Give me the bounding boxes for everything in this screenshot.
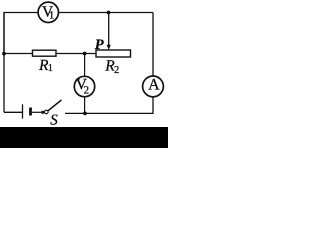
label R1 — [38, 57, 53, 74]
wire: bottom-left corner to battery — [4, 111, 22, 113]
svg-text:1: 1 — [49, 9, 55, 21]
node: junction of wiper branch on top wire — [107, 11, 111, 15]
battery cell: long positive plate — [22, 104, 24, 118]
wire: left vertical — [3, 13, 5, 113]
wire: middle junction down to V2 — [84, 54, 86, 77]
wire: V2 down to bottom wire — [84, 97, 86, 114]
wire: battery to switch — [32, 111, 41, 113]
switch S contact dot — [41, 111, 44, 114]
rheostat R2 body — [96, 50, 131, 57]
node: bottom junction of V2 branch — [83, 112, 87, 116]
wire: right vertical down to ammeter — [152, 13, 154, 77]
svg-text:2: 2 — [114, 65, 119, 76]
ammeter A — [143, 76, 164, 97]
svg-text:S: S — [50, 112, 58, 128]
node: left junction — [2, 52, 6, 56]
wire: left junction to R1 — [4, 53, 33, 55]
wire: top-left corner, left edge up and across to V1 — [4, 13, 38, 54]
voltmeter V1 — [38, 2, 58, 22]
wire: wiper lead from top junction — [108, 13, 110, 47]
voltmeter V2 — [74, 76, 94, 97]
wire: V1 to top-right corner — [59, 12, 154, 14]
wire: R1 to R2 — [56, 53, 96, 55]
battery cell: short negative plate — [29, 108, 32, 116]
svg-text:P: P — [95, 37, 104, 53]
wiper arrow of R2 — [107, 45, 111, 50]
node: middle junction to V2 branch — [83, 52, 87, 56]
svg-text:2: 2 — [84, 85, 90, 97]
switch S pivot — [45, 110, 49, 114]
svg-text:A: A — [148, 77, 160, 94]
resistor R1 — [33, 50, 57, 56]
switch S lever (open) — [48, 100, 62, 111]
svg-text:1: 1 — [48, 63, 53, 74]
label R2 — [104, 57, 119, 76]
wire: A down and along bottom to switch — [65, 97, 153, 114]
black band at bottom — [0, 127, 168, 148]
